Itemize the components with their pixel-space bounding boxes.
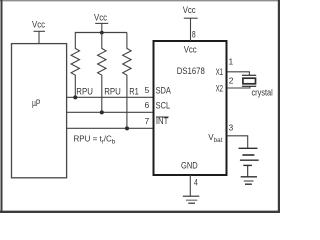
wire X2 to crystal [227, 86, 250, 88]
svg-text:Vcc: Vcc [183, 5, 196, 15]
svg-text:RPU: RPU [76, 86, 93, 96]
IC U1 DS1678 [154, 41, 227, 175]
svg-text:µP: µP [32, 98, 41, 108]
junction RPU/SCL [100, 110, 104, 114]
wire Vbat to battery [227, 136, 248, 149]
wire SCL [67, 111, 155, 113]
resistor RPU (middle) [98, 33, 121, 113]
svg-text:DS1678: DS1678 [177, 66, 205, 76]
junction rail/Vcc [100, 31, 104, 35]
wire INT [67, 127, 155, 129]
power Vcc (pull-up rail) [94, 13, 108, 33]
crystal Y1 [242, 75, 273, 97]
svg-text:X1: X1 [216, 67, 224, 77]
wire X1 to crystal [227, 72, 249, 76]
wire Vcc rail [75, 32, 127, 34]
svg-text:GND: GND [181, 161, 198, 171]
svg-text:7: 7 [145, 116, 150, 126]
svg-text:8: 8 [192, 30, 196, 40]
svg-text:SCL: SCL [156, 100, 171, 110]
junction R1/INT [125, 126, 129, 130]
wire GND pin [189, 175, 191, 196]
svg-text:Vcc: Vcc [94, 13, 107, 23]
power Vcc (above µP) [32, 19, 45, 43]
ground (GND pin) [183, 196, 200, 203]
svg-text:INT: INT [156, 116, 169, 126]
svg-text:X2: X2 [216, 83, 224, 93]
svg-text:3: 3 [229, 123, 234, 133]
svg-text:Vcc: Vcc [184, 44, 197, 54]
power Vcc (above DS1678) [183, 5, 198, 41]
junction RPU/SDA [73, 95, 77, 99]
wire SDA [67, 96, 155, 98]
svg-text:4: 4 [194, 178, 198, 188]
svg-text:Vcc: Vcc [32, 19, 45, 29]
resistor R1 [123, 33, 139, 129]
svg-text:5: 5 [145, 85, 150, 95]
svg-text:1: 1 [229, 56, 234, 66]
ground (battery) [241, 165, 257, 184]
svg-text:2: 2 [229, 76, 234, 86]
battery BT1 [239, 148, 259, 160]
svg-text:R1: R1 [129, 86, 139, 96]
svg-text:crystal: crystal [252, 88, 273, 98]
svg-text:6: 6 [145, 100, 150, 110]
svg-text:SDA: SDA [156, 85, 171, 95]
microprocessor µP [12, 44, 67, 178]
resistor RPU (left) [71, 33, 93, 98]
svg-text:RPU: RPU [104, 86, 121, 96]
